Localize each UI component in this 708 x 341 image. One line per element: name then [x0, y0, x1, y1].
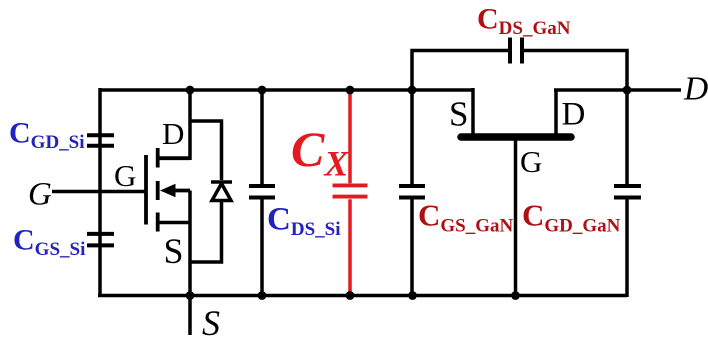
svg-text:D: D	[562, 97, 586, 133]
svg-text:CX: CX	[291, 121, 349, 184]
wire: C_GS_GaN vertical lower	[410, 200, 414, 296]
wire: C_DS_GaN right riser	[524, 51, 627, 91]
svg-text:CGD_Si: CGD_Si	[9, 117, 85, 154]
svg-text:S: S	[202, 303, 220, 341]
svg-text:G: G	[520, 144, 542, 179]
capacitor CX red branch wire upper	[348, 90, 352, 183]
wire: left vertical branch (gate caps)	[98, 88, 102, 296]
capacitor C_GD_GaN plates	[614, 186, 641, 198]
junction: Si drain at top rail	[186, 86, 195, 95]
junction: C_GS_GaN / C_DS_GaN at top rail	[408, 86, 417, 95]
D1 triangle	[212, 184, 231, 201]
junction: C_DS_Si at bottom rail	[258, 291, 267, 300]
wire: C_GS_GaN vertical upper	[410, 90, 414, 184]
wire: C_DS_Si vertical lower	[260, 200, 264, 296]
svg-text:S: S	[164, 231, 184, 271]
capacitor C_DS_Si plates	[249, 186, 275, 198]
wire: GaN drain lead up to D rail	[554, 90, 558, 134]
Q1 channel tick source	[156, 213, 160, 232]
wire: body diode bottom branch	[190, 201, 222, 263]
junction: CX at top rail	[346, 86, 355, 95]
wire: C_DS_GaN left riser	[412, 51, 508, 91]
wire: bottom rail (source node)	[98, 294, 627, 298]
svg-text:G: G	[114, 158, 136, 193]
Q1 gate bar	[144, 155, 148, 225]
junction: C_GS_GaN at bottom rail	[408, 291, 417, 300]
wire: Si gate terminal wire	[52, 190, 146, 194]
Q1 channel tick drain	[156, 148, 160, 168]
Q1 drain stub	[158, 156, 190, 160]
svg-text:CDS_GaN: CDS_GaN	[477, 3, 571, 40]
junction: C_DS_Si at top rail	[258, 86, 267, 95]
capacitor CX plates	[333, 185, 368, 196]
capacitor C_GS_Si plates	[87, 234, 114, 246]
wire: body diode top branch	[190, 121, 222, 180]
wire: top rail left (Si drain node to GaN source)	[100, 88, 473, 92]
wire: Si source lead down to S terminal stub	[188, 191, 192, 336]
capacitor C_GS_GaN plates	[399, 186, 425, 198]
wire: Si drain lead from top rail to MOSFET drain stub	[156, 90, 190, 158]
wire: GaN source lead down to channel bar	[471, 88, 475, 134]
svg-text:S: S	[449, 94, 468, 133]
junction: Si source at bottom rail	[186, 291, 195, 300]
Q1 body stub	[173, 189, 190, 193]
junction: CX at bottom rail	[346, 291, 355, 300]
capacitor C_GD_Si plates	[87, 135, 114, 146]
svg-text:G: G	[28, 177, 52, 213]
junction: C_GD_GaN / C_DS_GaN at D rail	[623, 86, 632, 95]
wire: C_DS_Si vertical upper	[260, 90, 264, 184]
svg-text:CDS_Si: CDS_Si	[267, 201, 340, 240]
wire: top rail right to D terminal	[554, 88, 681, 92]
transistor Q2 GaN HEMT channel bar	[461, 133, 571, 141]
Q1 channel tick body	[156, 181, 160, 200]
svg-text:CGD_GaN: CGD_GaN	[522, 197, 621, 236]
wire: C_GD_GaN right vertical lower	[625, 200, 629, 298]
svg-text:CGS_GaN: CGS_GaN	[418, 197, 514, 236]
Q1 body arrow	[160, 184, 176, 197]
D1 cathode bar	[211, 180, 232, 184]
wire: GaN gate lead down to bottom rail	[514, 140, 518, 296]
diode D1 (body diode)	[211, 182, 232, 201]
junction: GaN gate at bottom rail	[511, 291, 520, 300]
svg-text:D: D	[683, 71, 708, 108]
capacitor CX red branch wire lower	[348, 199, 352, 295]
svg-text:CGS_Si: CGS_Si	[13, 223, 85, 259]
capacitor C_DS_GaN plates	[510, 38, 522, 64]
svg-text:D: D	[162, 116, 184, 151]
wire: Si source stub	[156, 221, 190, 225]
transistor Q1 Si MOSFET symbol	[146, 148, 190, 232]
wire: C_GD_GaN right vertical upper	[625, 88, 629, 184]
